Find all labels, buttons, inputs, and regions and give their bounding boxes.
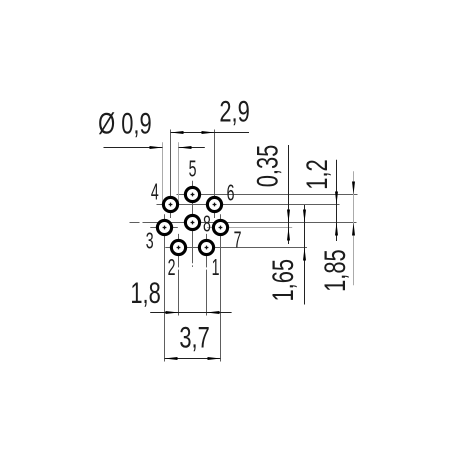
pin center crosses (163, 193, 223, 250)
svg-text:3: 3 (146, 229, 154, 254)
pin 4 vertical extension line (up to 2,9 dim) (170, 130, 172, 219)
pin 7 horizontal center mark extended (extension for 0,35) (207, 227, 292, 229)
horizontal centerline (main axis through pin 8) (130, 222, 357, 224)
pin 2 hole (171, 240, 185, 254)
diameter 0,9 right extension line (178, 142, 180, 202)
white interiors of pin holes (159, 189, 226, 253)
pin 5 row line (extension for 1,85) (177, 194, 358, 196)
dimension line 1,65 (303, 205, 306, 305)
pin 6 hole (207, 197, 221, 211)
svg-text:3,7: 3,7 (179, 320, 209, 354)
pin 5 hole (185, 187, 199, 201)
svg-text:4: 4 (151, 180, 159, 205)
svg-text:5: 5 (189, 157, 197, 182)
diameter 0,9 left extension line (162, 142, 164, 202)
svg-text:2,9: 2,9 (219, 94, 249, 128)
svg-text:8: 8 (203, 212, 211, 237)
svg-text:6: 6 (227, 181, 235, 206)
svg-text:1,85: 1,85 (318, 249, 352, 292)
dimension line 2,9 (171, 131, 250, 134)
pin 7 vertical extension line (down to 3,7 dim) (220, 214, 222, 361)
pin 1 vertical extension line (down to 1,8 dim) (206, 234, 208, 316)
pin 4 hole (163, 197, 177, 211)
pin 4/6 row line (extension for 1,2) (157, 204, 340, 206)
pin 8 hole (185, 215, 199, 229)
svg-text:1,2: 1,2 (300, 159, 334, 189)
svg-text:2: 2 (168, 256, 176, 281)
vertical centerline (through pins 5 and 8) (192, 181, 194, 267)
pin 3 hole (157, 220, 171, 234)
dimension line 1,2 (335, 160, 338, 241)
svg-text:0,35: 0,35 (250, 145, 284, 188)
svg-text:Ø 0,9: Ø 0,9 (98, 106, 152, 140)
pin 3 vertical extension line (down to 3,7 dim) (164, 214, 166, 361)
pin 3 horizontal center mark (150, 227, 178, 229)
svg-text:7: 7 (234, 228, 242, 253)
pin 2 vertical extension line (down to 1,8 dim) (178, 234, 180, 316)
pin 1 hole (199, 240, 213, 254)
dimension line 1,85 (352, 171, 355, 285)
pin 6 vertical extension line (up to 2,9 dim) (214, 130, 216, 219)
svg-text:1,8: 1,8 (130, 275, 160, 309)
pin 1/2 row line (extension for 1,65) (165, 247, 307, 249)
pin 7 hole (213, 220, 227, 234)
dimension line 1,8 (150, 311, 231, 314)
dimension line 0,35 (287, 145, 290, 244)
svg-text:1,65: 1,65 (266, 259, 300, 302)
dimension leader diameter 0,9 (104, 146, 205, 149)
svg-text:1: 1 (212, 256, 220, 281)
dimension line 3,7 (165, 357, 221, 360)
